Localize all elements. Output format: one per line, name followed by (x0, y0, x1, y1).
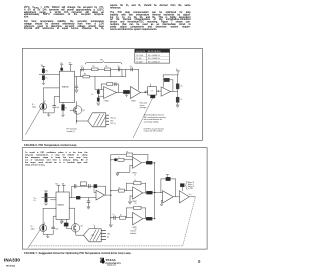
thermistor RTH (fig7 divider) (45, 198, 47, 202)
wire cap to block pin (fig7) (53, 216, 56, 227)
note text fig6 sub (144, 127, 165, 132)
wire dashed thermal feedback (28, 198, 195, 246)
capacitor C7 on right leg (53, 106, 56, 108)
wire mid feedback (127, 183, 146, 193)
figure 7 frame (22, 148, 207, 250)
capacitor C15 above (166, 175, 169, 178)
resistor R12 (76, 196, 80, 199)
resistor R15 (146, 161, 152, 164)
left column body text (24, 6, 104, 30)
wire op1 out to trunk (105, 194, 111, 196)
capacitor C11 (op1 fb) (75, 184, 76, 188)
op-amp A2 (131, 87, 141, 99)
resistor RG (62, 105, 65, 111)
wire trunk (110, 155, 112, 218)
capacitor C2 (118, 68, 119, 71)
wire TEC top stub (fig7) (94, 225, 96, 228)
resistor R23 (above A9) (180, 184, 184, 187)
ground (divider) (42, 81, 45, 85)
wire VS to R1 (fig7) (44, 191, 47, 193)
svg-text:TEXAS: TEXAS (106, 258, 116, 262)
resistor R7 (A1 fb) (107, 83, 113, 86)
wire R16 to A6 (124, 190, 132, 192)
wire driver top stub (150, 84, 152, 87)
resistor R19 (120, 216, 126, 219)
resistor R11 (176, 97, 179, 102)
thermistor RTH (bottom of divider) (42, 76, 44, 80)
wire PID row top (80, 68, 125, 70)
wire A1 plus input (98, 89, 103, 102)
right column body text (110, 4, 191, 31)
op-amp A6 proportional (133, 187, 143, 199)
wire block bottom pin ground (fig7) (60, 220, 63, 224)
wire row to A1 input (95, 77, 104, 90)
wire A7 out (143, 218, 147, 220)
wire R18 to node (152, 192, 154, 194)
pin 1 TEC (106, 114, 109, 116)
pin 4 TEC (fig7) (101, 239, 105, 241)
op-amp A1 (104, 87, 117, 99)
TI logo (0, 0, 213, 275)
resistor R22 (A8 fb) (166, 177, 170, 180)
pin 4 TEC (106, 123, 109, 125)
ground (trunk) (109, 224, 112, 227)
op-amp U2 driver block (148, 87, 157, 95)
wire C13 ground (88, 202, 90, 207)
ground (A1 divider) (97, 103, 100, 106)
wire top branch feedback (111, 155, 148, 163)
footer: page number 9 (198, 260, 200, 265)
wire gate (70, 109, 74, 111)
wire divider mid (177, 89, 179, 97)
resistor R9 between amps (123, 90, 129, 93)
resistor R18 (147, 191, 153, 194)
capacitor C10 (fig7) (52, 227, 55, 229)
resistor RG (fig7) (64, 223, 68, 226)
wire block to RTH2 branch (43, 88, 59, 103)
wire drain from block (fig7) (69, 208, 76, 223)
resistor R16 (118, 189, 124, 192)
pin 2 TEC (fig7) (101, 233, 105, 235)
op-amp U1 INA330 block (59, 71, 74, 102)
wire source to TEC (fig7) (76, 232, 84, 235)
ground (A6) (129, 201, 132, 204)
wire op1 feedback row (fig7) (72, 186, 106, 197)
wire A8 to A9 (173, 196, 179, 198)
op-amp A7 derivative (133, 212, 143, 225)
node A (divider mid, to INA330 VIN) (39, 73, 59, 75)
TEC module (fig7) (84, 229, 102, 242)
wire VS drop left (57, 185, 60, 192)
wire block out to op1 (fig7) (69, 197, 76, 199)
wire RTH to ground (42, 80, 44, 81)
note text fig6 upper (140, 102, 147, 110)
figure 6 frame (22, 48, 202, 140)
wire A5 plus in (117, 166, 132, 173)
brace over PID network (85, 61, 122, 64)
wire A3 out (170, 91, 177, 93)
wire RG to ground (62, 110, 64, 116)
leader line to note (133, 98, 153, 138)
node E (driver out) (158, 90, 159, 91)
wire driver out (157, 90, 162, 92)
wire circle bottom loop (fig7) (43, 230, 53, 235)
wire Q1 drain up (76, 102, 78, 106)
capacitor C8 (A1 fb) (115, 83, 116, 86)
wire A3 feedback inner (163, 80, 173, 92)
component value table (135, 49, 170, 63)
resistor R1 (fig7 divider) (45, 193, 47, 197)
op-amp A3 (161, 87, 170, 96)
caption figure 6 (24, 144, 99, 146)
ground (RG) (62, 115, 65, 117)
wire block bottom to RG (62, 103, 64, 105)
svg-text:INSTRUMENTS: INSTRUMENTS (106, 263, 122, 265)
ground (A5) (116, 172, 119, 176)
wire VS drop left (60, 65, 63, 68)
node H (trunk2 taps) (154, 162, 155, 219)
capacitor C1 (82, 68, 83, 71)
node I (source junction) (76, 120, 77, 121)
wire to C3 feedback (126, 69, 139, 90)
wire VS drop right (62, 185, 65, 192)
transistor Q1 MOSFET (74, 106, 82, 114)
resistor R21 (146, 217, 152, 220)
resistor R1 (top of divider) (42, 69, 44, 73)
wire to trunk2 (152, 162, 155, 164)
wire VS drop right (69, 65, 72, 72)
wire A9 out (189, 196, 195, 198)
op-amp A9 output (179, 191, 189, 203)
note text fig6 main (144, 114, 166, 124)
wire divider to ground (177, 102, 179, 105)
ground (A8) (160, 204, 163, 206)
wire circle bottom loop (43, 108, 54, 113)
wire block to RTH circle (fig7) (43, 208, 56, 224)
wire A3 feedback top (163, 75, 177, 87)
wire A5 out (142, 162, 147, 164)
note text inside figure 7 box (25, 151, 88, 166)
wire bottom branch row (111, 217, 133, 219)
TEC module (88, 113, 106, 127)
label adjust rows (188, 181, 195, 190)
node F (driver in) (145, 92, 146, 93)
resistor R25 (A1 divider bottom) (97, 98, 99, 102)
pin 1 TEC (fig7) (101, 230, 105, 232)
wire divider ground (fig7) (45, 202, 48, 205)
resistor R9 (A3 fb) (164, 78, 169, 81)
ground (thermistor loop) (47, 113, 50, 117)
capacitor C12 (op1 fb) (89, 184, 90, 188)
thermistor R_TH circle (40, 103, 47, 110)
wire A1 feedback (102, 84, 119, 93)
ground (C13) (87, 206, 90, 209)
wire trunk2 (154, 163, 156, 219)
wire A2 to driver (141, 91, 148, 92)
capacitor C bypass on VS drop (61, 68, 63, 70)
pin 2 TEC (106, 117, 109, 119)
wire mid branch row (111, 190, 119, 192)
node C (polar cap) (114, 158, 117, 161)
resistor R20 (bot fb) (134, 206, 141, 209)
op-amp A5 integrator (133, 157, 142, 168)
capacitor C14 (114, 216, 115, 220)
wire bottom feedback (127, 208, 146, 219)
wire cap to block pin (54, 97, 59, 106)
footer: INA330 part number (4, 258, 20, 263)
ground (C16) (75, 90, 78, 93)
wire top branch row (111, 159, 133, 161)
brace (adjust list) (185, 181, 187, 189)
footer: www.ti.com (107, 264, 116, 266)
resistor R14 (118, 158, 124, 161)
node B (fig7 divider mid) (42, 197, 56, 199)
pad U2 (150, 95, 155, 98)
resistor R4 (83, 75, 89, 78)
pin 3 TEC (106, 120, 109, 122)
thermistor R_TH circle (fig7) (40, 225, 47, 232)
wire signal row (75, 76, 126, 78)
pin 3 TEC (fig7) (101, 236, 105, 238)
ground (fig7 thermistor loop) (46, 234, 49, 238)
resistor R13 (top fb) (126, 153, 132, 156)
wire VS to R1 (42, 67, 45, 69)
resistor R5 (92, 68, 98, 71)
thermistor arrow (fig7) (28, 223, 45, 248)
ground (divider R11) (176, 105, 179, 108)
node G (trunk taps) (110, 159, 111, 218)
node D (summing) (154, 192, 155, 193)
resistor R6 (104, 68, 110, 71)
resistor R24 (A1 divider top) (97, 90, 99, 93)
resistor R2 (op1 fb loop) (80, 182, 86, 185)
wire R1 to node (42, 73, 44, 75)
capacitor C13 (87, 201, 90, 202)
capacitor C16 (row bypass) (75, 77, 78, 90)
wire trunk ground (110, 218, 112, 225)
resistor R10 (176, 84, 179, 89)
capacitor C3 (131, 68, 132, 71)
caption figure 7 (24, 252, 132, 254)
op-amp A8 summing (163, 191, 174, 203)
wire node to A8 (155, 192, 163, 194)
wire R12 to op1 (80, 197, 96, 199)
ground (R9) (125, 94, 128, 97)
wire A8 feedback (161, 179, 176, 197)
transistor Q2 MOSFET (fig7) (71, 224, 79, 232)
wire op1 minus in (94, 186, 96, 193)
wire R23 stub (181, 187, 183, 191)
wire A6 plus in (130, 196, 133, 202)
op-amp A4 error amp (fig7) (96, 190, 105, 200)
resistor R3 (op1 fb) (94, 185, 97, 188)
resistor R17 (mid fb) (134, 182, 141, 185)
wire divider top (177, 75, 179, 84)
wire PID loop verticals (80, 69, 125, 76)
wire A6 out (143, 192, 147, 194)
wire A1 out (117, 92, 124, 94)
thermistor arrow (26, 101, 46, 135)
op-amp U3 INA330 block (fig7) (56, 192, 69, 220)
wire RG to gate (fig7) (66, 220, 71, 229)
wire Q1 source to TEC (77, 114, 88, 123)
wire cap branch (fig7) (88, 198, 90, 201)
wire A8 plus in (162, 201, 163, 205)
wire R21 to trunk2 (152, 218, 155, 220)
wire stub pin2 (50, 199, 56, 201)
